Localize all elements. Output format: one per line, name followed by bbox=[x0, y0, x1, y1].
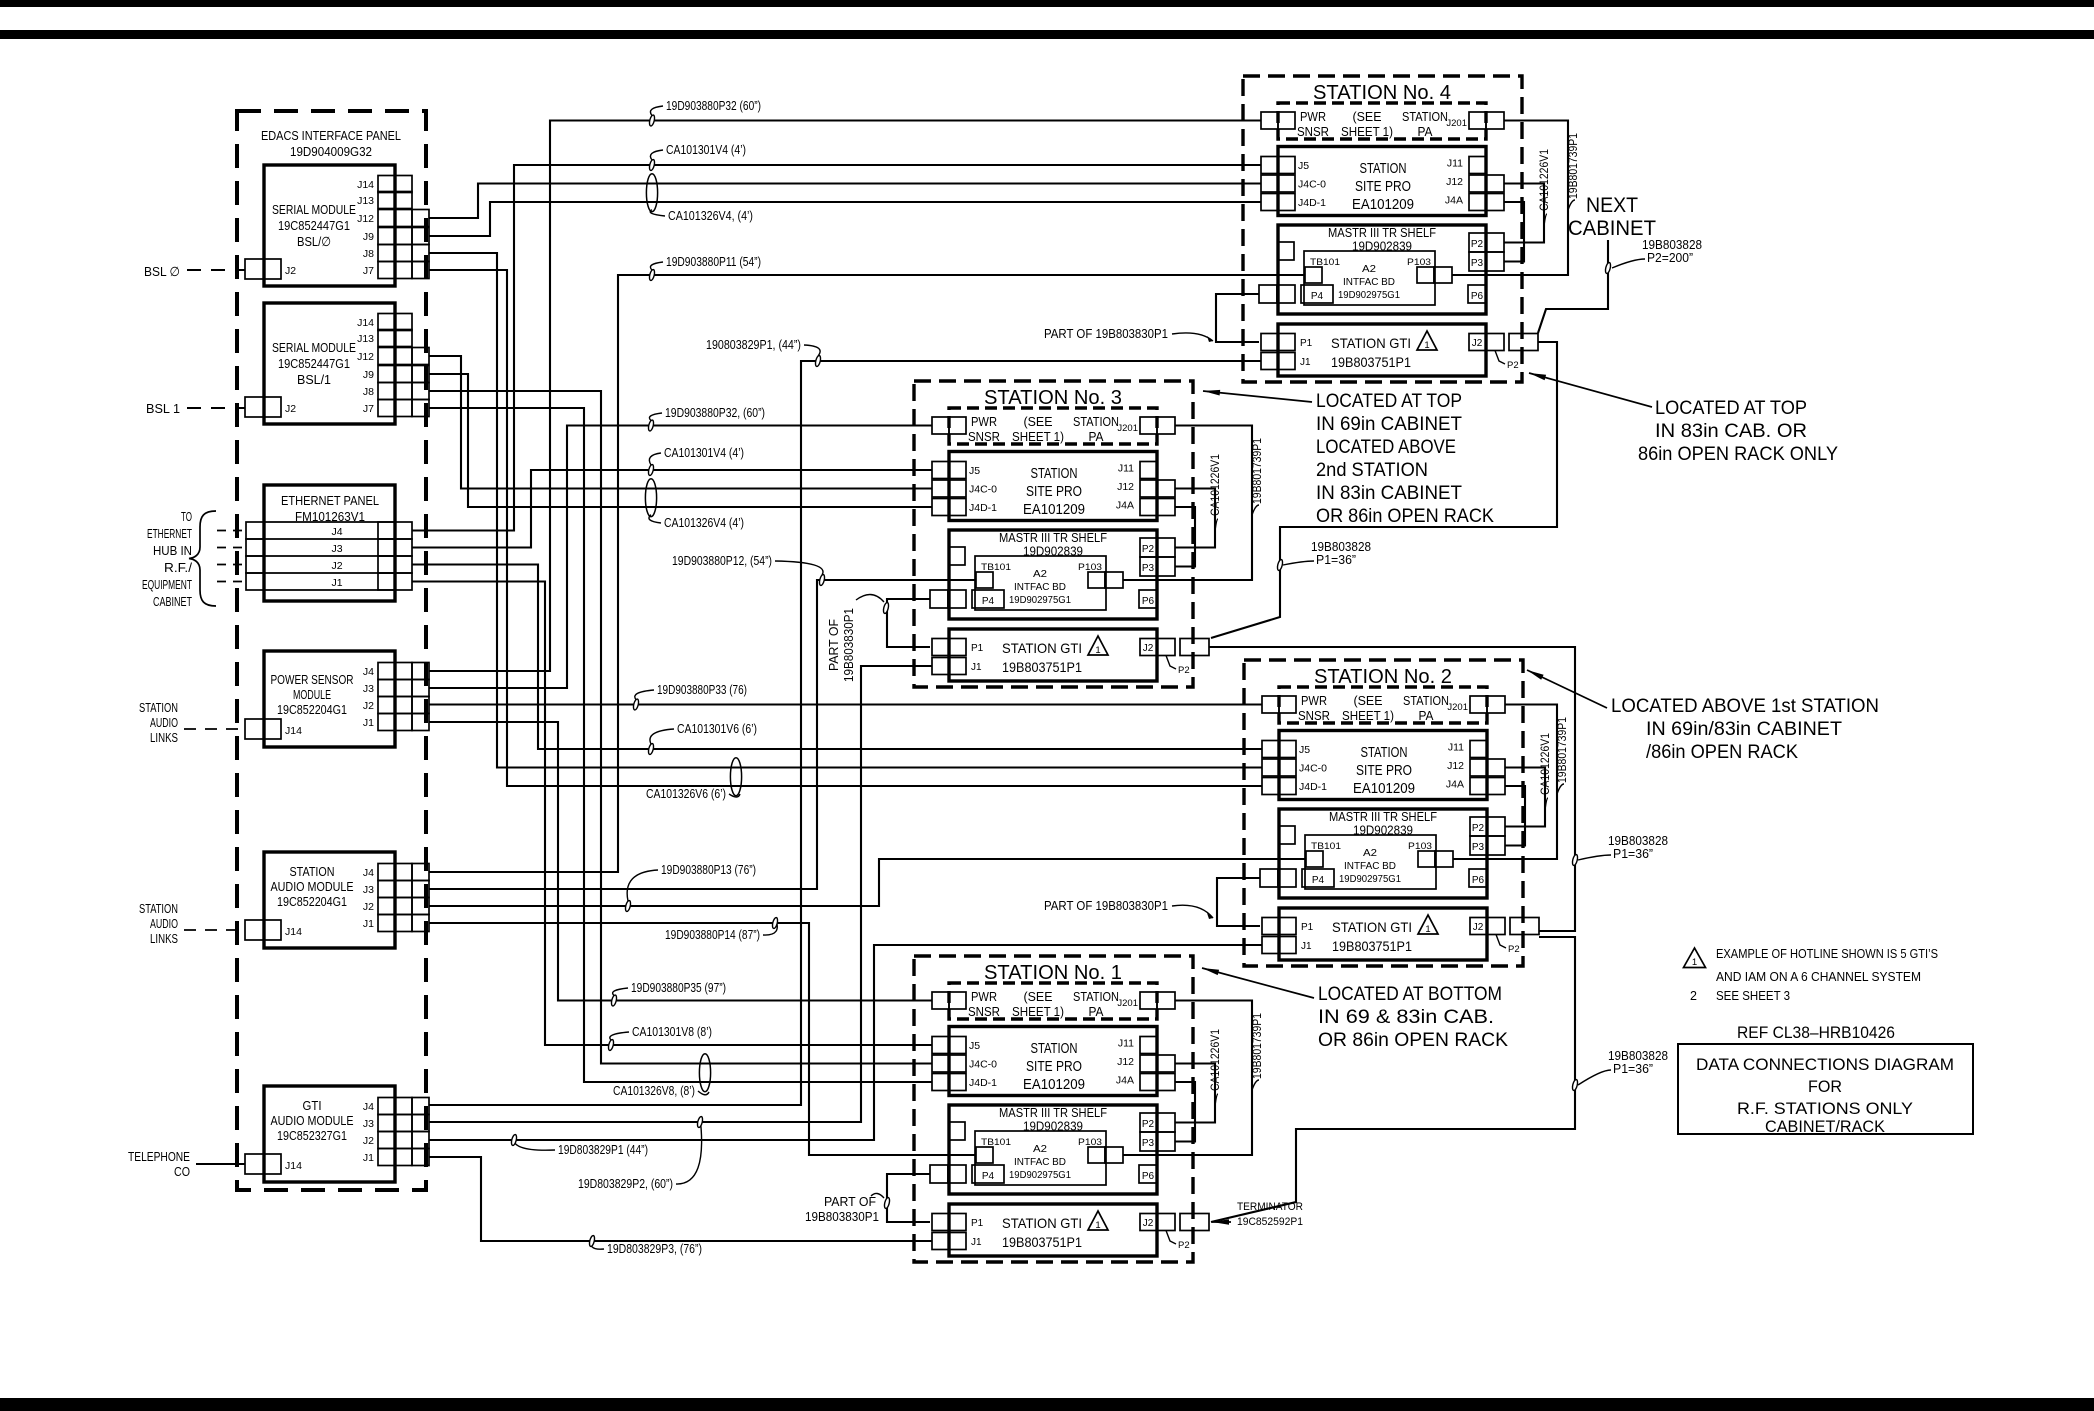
svg-text:J4: J4 bbox=[363, 1101, 374, 1113]
svg-text:AUDIO MODULE: AUDIO MODULE bbox=[271, 1113, 354, 1128]
svg-text:J11: J11 bbox=[1118, 1038, 1134, 1050]
svg-text:BSL ∅: BSL ∅ bbox=[144, 264, 180, 279]
svg-text:SNSR: SNSR bbox=[968, 1005, 1000, 1019]
svg-text:19D904009G32: 19D904009G32 bbox=[290, 144, 372, 159]
connector J201 (station 3) bbox=[1140, 417, 1157, 434]
svg-text:SNSR: SNSR bbox=[1298, 709, 1330, 723]
svg-text:A2: A2 bbox=[1362, 264, 1376, 275]
wire CA101226V1 J4A to P3 (station 1) bbox=[1175, 1082, 1195, 1142]
svg-text:19D903880P12, (54”): 19D903880P12, (54”) bbox=[672, 553, 772, 568]
label P2 of GTI J2 (station 4) bbox=[1495, 351, 1505, 365]
svg-text:IN 83in CABINET: IN 83in CABINET bbox=[1316, 482, 1462, 504]
svg-text:P4: P4 bbox=[1312, 875, 1325, 886]
svg-text:19B803751P1: 19B803751P1 bbox=[1002, 1234, 1082, 1250]
svg-text:19B801739P1: 19B801739P1 bbox=[1557, 717, 1569, 783]
connector P3 (station 1) bbox=[1140, 1132, 1157, 1151]
svg-text:19D903880P32 (60”): 19D903880P32 (60”) bbox=[666, 98, 761, 113]
svg-text:J2: J2 bbox=[1143, 1218, 1154, 1229]
svg-text:CA101326V8, (8’): CA101326V8, (8’) bbox=[613, 1083, 695, 1098]
svg-text:J2: J2 bbox=[363, 700, 374, 712]
connector P103 (station 2) bbox=[1418, 851, 1435, 867]
svg-text:TELEPHONE: TELEPHONE bbox=[128, 1149, 190, 1164]
svg-text:J4D-1: J4D-1 bbox=[1299, 781, 1327, 793]
svg-text:LINKS: LINKS bbox=[150, 730, 178, 745]
svg-text:J1: J1 bbox=[363, 1152, 374, 1164]
svg-text:19B801739P1: 19B801739P1 bbox=[1568, 133, 1580, 199]
svg-text:MASTR III TR SHELF: MASTR III TR SHELF bbox=[1328, 226, 1436, 240]
svg-text:SITE PRO: SITE PRO bbox=[1355, 179, 1411, 195]
svg-text:SHEET 1): SHEET 1) bbox=[1341, 125, 1393, 139]
svg-text:J14: J14 bbox=[285, 725, 302, 737]
svg-text:CA101301V4 (4’): CA101301V4 (4’) bbox=[666, 142, 746, 157]
svg-text:PWR: PWR bbox=[1300, 110, 1326, 124]
wire CA101226V1 J12 to P2 (station 4) bbox=[1504, 184, 1544, 243]
svg-text:86in OPEN RACK ONLY: 86in OPEN RACK ONLY bbox=[1638, 443, 1838, 465]
svg-text:STATION: STATION bbox=[1073, 415, 1119, 429]
svg-text:J1: J1 bbox=[1301, 941, 1312, 952]
svg-text:P3: P3 bbox=[1142, 563, 1155, 574]
svg-text:STATION: STATION bbox=[1031, 1041, 1078, 1057]
svg-text:CA101326V4, (4’): CA101326V4, (4’) bbox=[668, 208, 753, 223]
svg-text:P2: P2 bbox=[1472, 823, 1485, 834]
svg-text:CA101301V6 (6’): CA101301V6 (6’) bbox=[677, 721, 757, 736]
connector P1 (station 2) bbox=[1262, 918, 1279, 935]
board A2 INTFAC BD 19D902975G1 (station 2) bbox=[1305, 835, 1436, 889]
svg-text:LOCATED AT TOP: LOCATED AT TOP bbox=[1655, 397, 1807, 419]
connector J14 of POWER SENSOR MODULE 19C852204G1 bbox=[245, 719, 264, 739]
svg-text:19D803829P3, (76”): 19D803829P3, (76”) bbox=[607, 1241, 702, 1256]
svg-text:J201: J201 bbox=[1447, 702, 1468, 713]
svg-text:J12: J12 bbox=[1447, 760, 1464, 772]
svg-text:J1: J1 bbox=[363, 717, 374, 729]
svg-text:J4D-1: J4D-1 bbox=[969, 502, 997, 514]
svg-text:J12: J12 bbox=[357, 213, 374, 225]
svg-text:P3: P3 bbox=[1142, 1138, 1155, 1149]
connector J1 (station 1) bbox=[932, 1233, 949, 1250]
svg-text:J1: J1 bbox=[1300, 357, 1311, 368]
box MASTR III TR SHELF 19D902839 (station 3) bbox=[949, 530, 1157, 619]
svg-text:19B803751P1: 19B803751P1 bbox=[1332, 938, 1412, 954]
svg-text:CA101226V1: CA101226V1 bbox=[1539, 149, 1551, 211]
connector P3 (station 4) bbox=[1469, 252, 1486, 271]
svg-text:19D903880P32, (60”): 19D903880P32, (60”) bbox=[665, 405, 765, 420]
svg-text:PART OF 19B803830P1: PART OF 19B803830P1 bbox=[1044, 326, 1168, 341]
svg-text:J4C-0: J4C-0 bbox=[1299, 763, 1327, 775]
svg-text:PA: PA bbox=[1089, 1005, 1105, 1019]
wire CA101301V4 ethernet J4 to station4 J5 bbox=[412, 165, 1261, 531]
svg-text:J4: J4 bbox=[363, 666, 374, 678]
svg-text:J12: J12 bbox=[357, 351, 374, 363]
svg-text:P6: P6 bbox=[1471, 291, 1484, 302]
svg-text:P2: P2 bbox=[1178, 1240, 1190, 1251]
svg-text:J5: J5 bbox=[969, 1040, 980, 1052]
station STATION No. 2 dashed enclosure bbox=[1244, 660, 1523, 966]
svg-text:J5: J5 bbox=[1298, 160, 1309, 172]
svg-text:19B803751P1: 19B803751P1 bbox=[1331, 354, 1411, 370]
svg-text:19B803830P1: 19B803830P1 bbox=[841, 608, 856, 682]
svg-text:(SEE: (SEE bbox=[1024, 990, 1053, 1004]
svg-text:2: 2 bbox=[1690, 989, 1697, 1003]
svg-text:BSL/1: BSL/1 bbox=[297, 372, 331, 387]
svg-text:AUDIO: AUDIO bbox=[150, 916, 178, 931]
svg-text:J12: J12 bbox=[1446, 176, 1463, 188]
svg-text:OR 86in OPEN RACK: OR 86in OPEN RACK bbox=[1318, 1029, 1508, 1051]
svg-text:CA101226V1: CA101226V1 bbox=[1210, 1029, 1222, 1091]
svg-text:BSL 1: BSL 1 bbox=[146, 401, 180, 416]
connector PWR left (station 4) bbox=[1261, 112, 1278, 129]
svg-text:J4: J4 bbox=[363, 867, 374, 879]
svg-text:EA101209: EA101209 bbox=[1353, 781, 1415, 797]
svg-text:J5: J5 bbox=[969, 465, 980, 477]
svg-text:/86in OPEN RACK: /86in OPEN RACK bbox=[1646, 741, 1798, 763]
svg-text:J4D-1: J4D-1 bbox=[1298, 197, 1326, 209]
wire CA101226V1 J4A to P3 (station 2) bbox=[1505, 786, 1525, 846]
wire dashed stubs to ethernet panel bbox=[217, 530, 246, 532]
connector TB101 (station 2) bbox=[1306, 851, 1323, 867]
connector P4 (station 4) bbox=[1259, 285, 1277, 303]
svg-text:J1: J1 bbox=[363, 918, 374, 930]
svg-text:(SEE: (SEE bbox=[1353, 110, 1382, 124]
svg-text:P1=36”: P1=36” bbox=[1613, 1062, 1653, 1076]
connector P3 (station 2) bbox=[1470, 836, 1487, 855]
svg-text:CA101326V4 (4’): CA101326V4 (4’) bbox=[664, 515, 744, 530]
connector PWR left (station 3) bbox=[932, 417, 949, 434]
svg-text:J2: J2 bbox=[1473, 922, 1484, 933]
svg-text:STATION: STATION bbox=[290, 864, 335, 879]
note LOCATED AT TOP IN 83in CAB (station4) bbox=[1529, 373, 1652, 407]
svg-text:J11: J11 bbox=[1448, 742, 1464, 754]
svg-text:FOR: FOR bbox=[1808, 1077, 1842, 1096]
svg-text:J4A: J4A bbox=[1116, 500, 1134, 512]
box STATION SITE PRO EA101209 (station 3) bbox=[949, 452, 1157, 521]
wire CA101326V4 BSL0 J12 to station4 J4C-0 bbox=[429, 184, 1261, 219]
svg-text:J4C-0: J4C-0 bbox=[1298, 179, 1326, 191]
wire jumper P4 to P1 part of 19B803830P1 (station 4) bbox=[1216, 294, 1259, 342]
connector P1 (station 4) bbox=[1261, 334, 1278, 351]
svg-text:19D803829P1 (44”): 19D803829P1 (44”) bbox=[558, 1142, 648, 1157]
connector P4 (station 2) bbox=[1260, 869, 1278, 887]
module POWER SENSOR MODULE 19C852204G1 bbox=[264, 651, 395, 747]
svg-text:REF CL38–HRB10426: REF CL38–HRB10426 bbox=[1737, 1024, 1895, 1042]
svg-text:J11: J11 bbox=[1118, 463, 1134, 475]
svg-text:19D903880P11 (54”): 19D903880P11 (54”) bbox=[666, 254, 761, 269]
board A2 INTFAC BD 19D902975G1 (station 1) bbox=[975, 1131, 1106, 1185]
svg-text:A2: A2 bbox=[1033, 1144, 1047, 1155]
svg-text:MASTR III TR SHELF: MASTR III TR SHELF bbox=[999, 1106, 1107, 1120]
marker hotline 2-1 bbox=[1572, 1079, 1579, 1091]
title block DATA CONNECTIONS DIAGRAM bbox=[1678, 1044, 1973, 1134]
wire 19D903880P11 station audio J4 to station4 TB101 bbox=[429, 275, 1305, 872]
svg-text:J7: J7 bbox=[363, 265, 374, 277]
svg-text:J4A: J4A bbox=[1446, 779, 1464, 791]
wire 19D803829P1 GTI audio J2 to station2 J1 bbox=[429, 945, 1262, 1140]
svg-text:J11: J11 bbox=[1447, 158, 1463, 170]
svg-text:STATION GTI: STATION GTI bbox=[1002, 640, 1082, 656]
svg-text:HUB IN: HUB IN bbox=[153, 543, 192, 558]
svg-text:PART OF: PART OF bbox=[824, 1194, 876, 1209]
svg-text:MASTR III TR SHELF: MASTR III TR SHELF bbox=[1329, 810, 1437, 824]
svg-text:19C852327G1: 19C852327G1 bbox=[277, 1128, 347, 1143]
svg-text:J8: J8 bbox=[363, 386, 374, 398]
svg-text:J12: J12 bbox=[1117, 481, 1134, 493]
svg-text:J2: J2 bbox=[331, 560, 342, 572]
connector P103 (station 3) bbox=[1088, 572, 1105, 588]
svg-text:19B803828: 19B803828 bbox=[1608, 1049, 1668, 1063]
top border bar 2 bbox=[0, 30, 2094, 39]
module SERIAL MODULE BSL/1 19C852447G1 bbox=[264, 303, 395, 424]
svg-text:STATION: STATION bbox=[139, 700, 178, 715]
marker hotline next cabinet bbox=[1605, 262, 1612, 274]
connector J1 (station 3) bbox=[932, 658, 949, 675]
svg-text:CO: CO bbox=[174, 1164, 190, 1179]
svg-text:CA101301V4 (4’): CA101301V4 (4’) bbox=[664, 445, 744, 460]
svg-text:P4: P4 bbox=[982, 1171, 995, 1182]
wire hotline station4 J2 to station3 J2 bbox=[1211, 342, 1557, 638]
svg-text:19C852447G1: 19C852447G1 bbox=[278, 356, 350, 371]
svg-text:J201: J201 bbox=[1446, 118, 1467, 129]
svg-text:STATION GTI: STATION GTI bbox=[1332, 919, 1412, 935]
svg-text:P2: P2 bbox=[1471, 239, 1484, 250]
svg-text:STATION: STATION bbox=[1360, 161, 1407, 177]
module GTI AUDIO MODULE 19C852327G1 bbox=[264, 1086, 395, 1182]
svg-text:LINKS: LINKS bbox=[150, 931, 178, 946]
warning triangle 1 (station 3) bbox=[1088, 636, 1108, 655]
connector J2 of SERIAL MODULE BSL/∅ bbox=[245, 259, 264, 279]
connector TB101 (station 3) bbox=[976, 572, 993, 588]
svg-text:MODULE: MODULE bbox=[293, 687, 331, 702]
box MASTR III TR SHELF 19D902839 (station 2) bbox=[1279, 809, 1487, 898]
svg-text:J12: J12 bbox=[1117, 1056, 1134, 1068]
board A2 INTFAC BD 19D902975G1 (station 3) bbox=[975, 556, 1106, 610]
box STATION SITE PRO EA101209 (station 1) bbox=[949, 1027, 1157, 1096]
svg-text:P1: P1 bbox=[1301, 922, 1314, 933]
svg-text:J2: J2 bbox=[285, 265, 296, 277]
svg-text:J201: J201 bbox=[1117, 998, 1138, 1009]
svg-text:STATION No. 1: STATION No. 1 bbox=[984, 962, 1122, 984]
svg-text:INTFAC BD: INTFAC BD bbox=[1014, 1157, 1066, 1168]
wire 19B801739P1 J201 to P103 (station 2) bbox=[1453, 705, 1557, 860]
svg-text:IN 69 & 83in CAB.: IN 69 & 83in CAB. bbox=[1318, 1006, 1494, 1028]
connector J2 (station 4) bbox=[1469, 334, 1486, 351]
svg-text:IN 69in/83in CABINET: IN 69in/83in CABINET bbox=[1646, 718, 1842, 740]
wire CA101326V6 BSL0 J8 to station2 J4C-0 bbox=[429, 253, 1262, 768]
connector P103 (station 1) bbox=[1088, 1147, 1105, 1163]
svg-text:SEE SHEET 3: SEE SHEET 3 bbox=[1716, 989, 1790, 1003]
connector J1 (station 2) bbox=[1262, 937, 1279, 954]
svg-text:P2=200”: P2=200” bbox=[1647, 251, 1693, 265]
svg-text:CA101226V1: CA101226V1 bbox=[1210, 454, 1222, 516]
marker hotline 4-3 bbox=[1277, 559, 1284, 571]
connector P2 (station 2) bbox=[1470, 817, 1487, 836]
wire hotline station3 J2 to station2 J2 bbox=[1209, 647, 1575, 931]
svg-text:J2: J2 bbox=[363, 901, 374, 913]
svg-text:EXAMPLE OF HOTLINE SHOWN I: EXAMPLE OF HOTLINE SHOWN IS 5 GTI’S bbox=[1716, 947, 1938, 961]
wire 19D803829P1 GTI audio J4 to station4 J1 bbox=[429, 361, 1261, 1105]
svg-text:P2: P2 bbox=[1507, 360, 1519, 371]
wire CA101326V4 BSL0 J9 to station4 J4D-1 bbox=[429, 202, 1261, 236]
svg-text:19C852592P1: 19C852592P1 bbox=[1237, 1216, 1303, 1228]
svg-text:A2: A2 bbox=[1033, 569, 1047, 580]
svg-text:ETHERNET: ETHERNET bbox=[147, 526, 192, 541]
bottom border bar bbox=[0, 1398, 2094, 1411]
svg-text:A2: A2 bbox=[1363, 848, 1377, 859]
svg-text:J3: J3 bbox=[331, 543, 342, 555]
svg-text:SHEET 1): SHEET 1) bbox=[1342, 709, 1394, 723]
svg-text:NEXT: NEXT bbox=[1586, 194, 1638, 217]
svg-text:19B801739P1: 19B801739P1 bbox=[1252, 438, 1264, 504]
marker hotline 3-2 bbox=[1572, 854, 1579, 866]
svg-text:LOCATED ABOVE: LOCATED ABOVE bbox=[1316, 436, 1456, 458]
svg-text:EA101209: EA101209 bbox=[1352, 197, 1414, 213]
svg-text:P1: P1 bbox=[1300, 338, 1313, 349]
svg-text:CABINET: CABINET bbox=[1568, 217, 1656, 240]
svg-text:2nd STATION: 2nd STATION bbox=[1316, 459, 1428, 481]
svg-text:EA101209: EA101209 bbox=[1023, 1077, 1085, 1093]
svg-text:19B803828: 19B803828 bbox=[1608, 834, 1668, 848]
station STATION No. 1 dashed enclosure bbox=[914, 956, 1193, 1262]
connector unlabeled MASTR left (station 2) bbox=[1279, 826, 1295, 844]
svg-text:(SEE: (SEE bbox=[1354, 694, 1383, 708]
wire 19D903880P32 power sensor J3 to station3 PWR bbox=[429, 426, 932, 689]
svg-text:SNSR: SNSR bbox=[968, 430, 1000, 444]
svg-text:19D903880P14 (87”): 19D903880P14 (87”) bbox=[665, 927, 760, 942]
svg-text:STATION: STATION bbox=[1031, 466, 1078, 482]
connector J14 of STATION AUDIO MODULE 19C852204G1 bbox=[245, 920, 264, 940]
box PWR SNSR / STATION PA (station 3) bbox=[949, 408, 1157, 444]
svg-text:J14: J14 bbox=[285, 926, 302, 938]
svg-text:BSL/∅: BSL/∅ bbox=[297, 234, 331, 249]
label P2 of GTI J2 (station 1) bbox=[1166, 1231, 1176, 1245]
svg-text:1: 1 bbox=[1692, 957, 1697, 968]
svg-text:PA: PA bbox=[1419, 709, 1435, 723]
connector J2 (station 3) bbox=[1140, 639, 1157, 656]
svg-text:J4D-1: J4D-1 bbox=[969, 1077, 997, 1089]
wire 19D803829P3 GTI audio J1 to station1 J1 bbox=[429, 1157, 932, 1241]
svg-text:CABINET: CABINET bbox=[153, 594, 192, 609]
box MASTR III TR SHELF 19D902839 (station 4) bbox=[1278, 225, 1486, 314]
svg-text:INTFAC BD: INTFAC BD bbox=[1343, 277, 1395, 288]
svg-text:J3: J3 bbox=[363, 1118, 374, 1130]
svg-text:STATION No. 4: STATION No. 4 bbox=[1313, 82, 1451, 104]
wire CA101326V8 BSL1 J8 to station1 J4C-0 bbox=[429, 391, 932, 1064]
svg-text:P2: P2 bbox=[1178, 665, 1190, 676]
note LOCATED AT TOP IN 69in CABINET (station3) bbox=[1203, 391, 1312, 402]
wire 19B801739P1 J201 to P103 (station 1) bbox=[1123, 1001, 1252, 1156]
svg-text:SERIAL MODULE: SERIAL MODULE bbox=[272, 202, 356, 217]
svg-text:POWER SENSOR: POWER SENSOR bbox=[271, 672, 354, 687]
wire CA101301V6 ethernet J2 to station2 J5 bbox=[412, 565, 1262, 750]
svg-text:J1: J1 bbox=[971, 662, 982, 673]
terminator 19C852592P1 arrow bbox=[1212, 1221, 1231, 1223]
wire 19D903880P12 station audio J3 to station3 TB101 bbox=[429, 580, 976, 889]
connector unlabeled MASTR left (station 4) bbox=[1278, 242, 1294, 260]
svg-text:J9: J9 bbox=[363, 231, 374, 243]
svg-text:P4: P4 bbox=[1311, 291, 1324, 302]
wire CA101326V6 BSL0 J7 to station2 J4D-1 bbox=[429, 270, 1262, 786]
svg-text:P2: P2 bbox=[1508, 944, 1520, 955]
wire 19D903880P33 power sensor J2 to station2 PWR bbox=[429, 703, 1262, 705]
svg-text:PA: PA bbox=[1418, 125, 1434, 139]
svg-text:IN 69in CABINET: IN 69in CABINET bbox=[1316, 413, 1462, 435]
connector P3 (station 3) bbox=[1140, 557, 1157, 576]
wire 19D903880P35 power sensor J1 to station1 PWR bbox=[429, 722, 932, 1001]
box STATION SITE PRO EA101209 (station 4) bbox=[1278, 147, 1486, 216]
svg-text:19B803828: 19B803828 bbox=[1311, 540, 1371, 554]
connector PWR left (station 1) bbox=[932, 992, 949, 1009]
note triangle 1 hotline example bbox=[1684, 948, 1706, 968]
connector P4 (station 3) bbox=[930, 590, 948, 608]
svg-text:J4A: J4A bbox=[1116, 1075, 1134, 1087]
top border bar 1 bbox=[0, 0, 2094, 7]
module SERIAL MODULE BSL/∅ 19C852447G1 bbox=[264, 165, 395, 286]
svg-text:J1: J1 bbox=[971, 1237, 982, 1248]
svg-text:J3: J3 bbox=[363, 683, 374, 695]
svg-text:J4: J4 bbox=[331, 526, 342, 538]
svg-text:19D903880P13 (76”): 19D903880P13 (76”) bbox=[661, 862, 756, 877]
connector P6 (station 2) bbox=[1469, 869, 1487, 887]
wire CA101226V1 J4A to P3 (station 3) bbox=[1175, 507, 1195, 567]
svg-text:SHEET 1): SHEET 1) bbox=[1012, 1005, 1064, 1019]
wire CA101326V4 BSL1 J12 to station3 J4C-0 bbox=[429, 356, 932, 489]
svg-text:STATION GTI: STATION GTI bbox=[1002, 1215, 1082, 1231]
svg-text:R.F./: R.F./ bbox=[164, 560, 192, 575]
svg-text:19B803751P1: 19B803751P1 bbox=[1002, 659, 1082, 675]
svg-text:IN 83in CAB. OR: IN 83in CAB. OR bbox=[1655, 420, 1807, 442]
wire hotline station4 J2 to NEXT CABINET bbox=[1538, 240, 1608, 333]
svg-text:J9: J9 bbox=[363, 369, 374, 381]
svg-text:CA101326V6 (6’): CA101326V6 (6’) bbox=[646, 786, 726, 801]
connector unlabeled MASTR left (station 3) bbox=[949, 547, 965, 565]
svg-text:OR 86in OPEN RACK: OR 86in OPEN RACK bbox=[1316, 505, 1494, 527]
connector J2 (station 2) bbox=[1470, 918, 1487, 935]
svg-text:PWR: PWR bbox=[971, 415, 997, 429]
wire CA101326V4 BSL1 J9 to station3 J4D-1 bbox=[429, 374, 932, 507]
svg-text:P1=36”: P1=36” bbox=[1316, 553, 1356, 567]
svg-text:LOCATED AT BOTTOM: LOCATED AT BOTTOM bbox=[1318, 983, 1502, 1005]
wire CA101301V8 ethernet J1 to station1 J5 bbox=[412, 582, 932, 1046]
connector P1 (station 3) bbox=[932, 639, 949, 656]
svg-text:LOCATED AT TOP: LOCATED AT TOP bbox=[1316, 390, 1462, 412]
wire CA101226V1 J12 to P2 (station 3) bbox=[1175, 489, 1215, 548]
connector J2 of SERIAL MODULE BSL/1 bbox=[245, 397, 264, 417]
svg-text:GTI: GTI bbox=[303, 1098, 322, 1113]
svg-text:1: 1 bbox=[1095, 645, 1100, 656]
svg-text:TERMINATOR: TERMINATOR bbox=[1237, 1201, 1303, 1213]
svg-text:19D902975G1: 19D902975G1 bbox=[1339, 874, 1401, 885]
note LOCATED ABOVE 1st STATION (station2) bbox=[1527, 670, 1607, 708]
svg-text:J3: J3 bbox=[363, 884, 374, 896]
svg-text:J201: J201 bbox=[1117, 423, 1138, 434]
box STATION GTI 19B803751P1 (station 3) bbox=[949, 629, 1157, 681]
connector J1 (station 4) bbox=[1261, 353, 1278, 370]
svg-text:19C852204G1: 19C852204G1 bbox=[277, 894, 347, 909]
connector unlabeled MASTR left (station 1) bbox=[949, 1122, 965, 1140]
connector P6 (station 4) bbox=[1468, 285, 1486, 303]
svg-text:P3: P3 bbox=[1471, 258, 1484, 269]
svg-text:PWR: PWR bbox=[1301, 694, 1327, 708]
svg-text:19B801739P1: 19B801739P1 bbox=[1252, 1013, 1264, 1079]
connector TB101 (station 4) bbox=[1305, 267, 1322, 283]
svg-text:AND IAM ON A 6 CHANNEL: AND IAM ON A 6 CHANNEL SYSTEM bbox=[1716, 970, 1921, 984]
svg-text:SHEET 1): SHEET 1) bbox=[1012, 430, 1064, 444]
wire CA101226V1 J12 to P2 (station 2) bbox=[1505, 768, 1545, 827]
EDACS INTERFACE PANEL dashed enclosure 19D904009G32 bbox=[237, 111, 426, 1190]
wire jumper P4 to P1 part of 19B803830P1 (station 2) bbox=[1217, 878, 1260, 926]
svg-text:MASTR III TR SHELF: MASTR III TR SHELF bbox=[999, 531, 1107, 545]
svg-text:19D903880P33 (76): 19D903880P33 (76) bbox=[657, 682, 747, 697]
svg-text:19D902975G1: 19D902975G1 bbox=[1338, 290, 1400, 301]
connector P2 (station 4) bbox=[1469, 233, 1486, 252]
